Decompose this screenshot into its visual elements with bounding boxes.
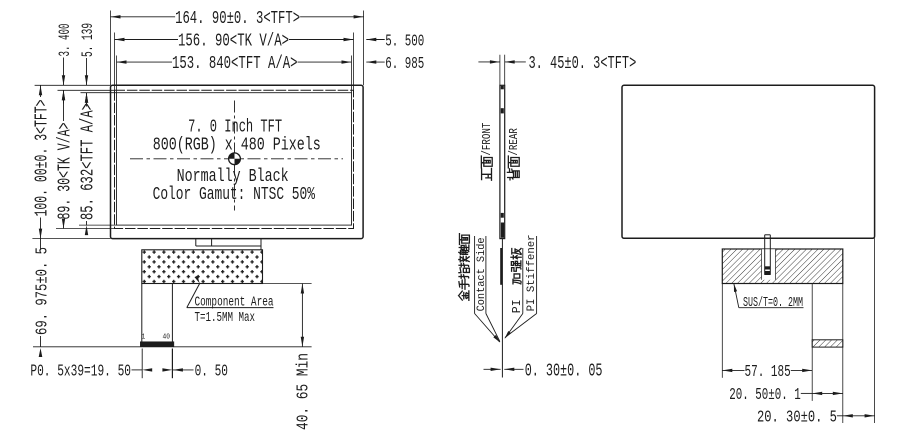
side view: panel extension lines up	[499, 55, 501, 86]
extension line: A/A top extended left	[81, 92, 117, 94]
svg-text:156. 90<TK V/A>: 156. 90<TK V/A>	[178, 32, 289, 52]
svg-text:800(RGB) x 480 Pixels: 800(RGB) x 480 Pixels	[153, 136, 321, 156]
svg-text:/REAR: /REAR	[507, 128, 521, 156]
svg-text:0. 30±0. 05: 0. 30±0. 05	[525, 361, 603, 381]
front view: TFT A/A outline	[117, 93, 352, 225]
dimension 3.400 (module top to V/A top)	[63, 58, 65, 86]
dimension 40.65 Min (FPC length)	[301, 284, 303, 347]
svg-text:SUS/T=0. 2MM: SUS/T=0. 2MM	[743, 295, 803, 311]
extension line: module right edge extended up	[363, 11, 365, 86]
svg-text:5. 139: 5. 139	[79, 23, 97, 57]
rear view: small hatched block	[812, 340, 843, 347]
svg-text:3. 45±0. 3<TFT>: 3. 45±0. 3<TFT>	[529, 54, 637, 74]
svg-text:Component Area: Component Area	[195, 295, 274, 310]
svg-text:Color Gamut: NTSC 50%: Color Gamut: NTSC 50%	[153, 185, 316, 205]
underline of PI 加强板 label	[522, 248, 524, 314]
dimension 57.185	[722, 369, 744, 371]
side view: panel body (edge-on)	[500, 85, 505, 238]
rear extension line: module right edge down	[874, 238, 876, 423]
dimension 0.30±0.05 (FPC thickness)	[484, 368, 501, 370]
svg-text:20. 30±0. 5: 20. 30±0. 5	[757, 408, 837, 427]
dimension 69.975±0.5 (module bottom to FPC end)	[40, 239, 42, 250]
rear extension line: stiffener right edge down	[842, 284, 844, 424]
rear extension line: x=812 down	[811, 284, 813, 401]
side view: tape mark bottom	[501, 223, 504, 238]
dimension 89.30<TK V/A> (V/A height)	[63, 90, 65, 121]
extension line: V/A left top	[114, 33, 116, 91]
rear view: connector end (black)	[765, 266, 771, 269]
rear view: SUS stiffener plate (hatched)	[722, 249, 843, 284]
dimension 6.985 (module to A/A right)	[366, 60, 376, 63]
underline of 金手指接触面 label	[474, 236, 476, 314]
rear extension line: stiffener left edge down	[721, 284, 723, 378]
extension line: component area bottom extended right	[263, 283, 312, 285]
front view: TFT module outline 164.90 x 100.00	[111, 85, 364, 238]
dimension P0.5x39=19.50 (pin pitch span)	[132, 369, 143, 371]
extension line: V/A right top	[353, 33, 355, 91]
extension line: module top extended left	[35, 84, 111, 86]
front view: FPC connector contact bar (black)	[140, 342, 174, 347]
svg-text:164. 90±0. 3<TFT>: 164. 90±0. 3<TFT>	[175, 9, 300, 29]
front view: FPC tail	[141, 284, 143, 343]
dimension 100.00±0.3<TFT> (module height)	[40, 85, 42, 97]
dimension 5.139 (module top to A/A top)	[86, 58, 88, 85]
svg-text:0. 50: 0. 50	[195, 362, 228, 381]
svg-text:85. 632<TFT A/A>: 85. 632<TFT A/A>	[79, 103, 99, 220]
SUS stiffener leader line	[734, 284, 739, 308]
rear view: FPC tab	[764, 235, 766, 275]
front view: FPC component area (dotted hatch)	[142, 250, 263, 284]
dimension 0.50 (pin width)	[173, 368, 183, 371]
extension line: V/A top extended left	[58, 89, 115, 91]
front view: FPC exit step below module	[195, 239, 197, 246]
extension line: A/A right top	[351, 56, 353, 93]
label 正面/FRONT (rotated)	[482, 168, 492, 180]
underline of Contact Side label	[485, 236, 487, 314]
underline of PI Stiffener label	[536, 236, 538, 314]
svg-text:20. 50±0. 1: 20. 50±0. 1	[729, 386, 801, 405]
rear view: FPC channel (white gap in stiffener)	[762, 249, 776, 280]
label Contact Side (rotated)	[476, 237, 488, 311]
extension line: pin 1 edge	[141, 349, 143, 379]
component area leader line	[187, 283, 200, 307]
dimension 3.45±0.3<TFT> (thickness)	[478, 61, 500, 63]
svg-text:69. 975±0. 5: 69. 975±0. 5	[33, 247, 52, 335]
extension line: module left edge extended up	[110, 11, 112, 86]
svg-text:T=1.5MM Max: T=1.5MM Max	[195, 311, 256, 326]
extension line: V/A bottom extended left	[56, 228, 115, 230]
dimension 5.500 (module to V/A right)	[366, 38, 376, 41]
svg-text:40: 40	[163, 334, 171, 342]
svg-text:153. 840<TFT A/A>: 153. 840<TFT A/A>	[172, 54, 298, 74]
svg-text:P0. 5x39=19. 50: P0. 5x39=19. 50	[30, 362, 131, 381]
svg-text:3. 400: 3. 400	[56, 24, 74, 57]
extension line: module bottom extended left	[32, 238, 110, 240]
svg-text:5. 500: 5. 500	[385, 32, 424, 51]
label 背面/REAR (rotated)	[507, 169, 519, 180]
front view: vertical centerline	[234, 101, 236, 211]
contact side leader lines	[475, 314, 500, 343]
side view: tape mark top	[501, 86, 504, 89]
svg-text:Normally Black: Normally Black	[177, 167, 289, 187]
extension line: A/A bottom extended left	[79, 224, 117, 226]
dimension 85.632<TFT A/A> (A/A height)	[86, 93, 88, 104]
front view: center mark symbol	[229, 153, 241, 165]
label PI Stiffener (rotated)	[526, 234, 538, 311]
dimension 153.840<TFT A/A>	[117, 61, 173, 63]
stiffener leader lines	[505, 314, 523, 339]
side view: PI stiffener bar	[500, 248, 502, 285]
front view: horizontal centerline (dash-dot)	[130, 158, 343, 160]
side view: tape mark upper	[501, 108, 504, 113]
svg-text:1: 1	[142, 334, 146, 342]
side view: FPC tail line	[501, 239, 503, 378]
svg-text:6. 985: 6. 985	[385, 55, 424, 74]
extension line: pin 40 edge	[171, 349, 173, 379]
svg-text:PI: PI	[511, 299, 524, 313]
svg-text:100. 00±0. 3<TFT>: 100. 00±0. 3<TFT>	[33, 100, 53, 217]
svg-text:/FRONT: /FRONT	[480, 123, 494, 156]
extension line: A/A left top	[116, 56, 118, 93]
front view: TK V/A outline (dashed)	[115, 90, 354, 228]
side view: tape mark lower	[501, 213, 504, 218]
dimension 156.90<TK V/A>	[115, 39, 179, 41]
rear view: module outline	[622, 85, 875, 238]
svg-text:57. 185: 57. 185	[745, 363, 791, 382]
label 金手指接触面 (contact side, Chinese, rotated)	[459, 291, 469, 301]
svg-text:89. 30<TK V/A>: 89. 30<TK V/A>	[56, 123, 76, 220]
dimension 164.90±0.3<TFT>	[111, 16, 176, 18]
label PI 加强板 (rotated)	[511, 299, 524, 313]
svg-text:40. 65 Min: 40. 65 Min	[294, 353, 313, 430]
FPC end reference line	[33, 346, 312, 348]
